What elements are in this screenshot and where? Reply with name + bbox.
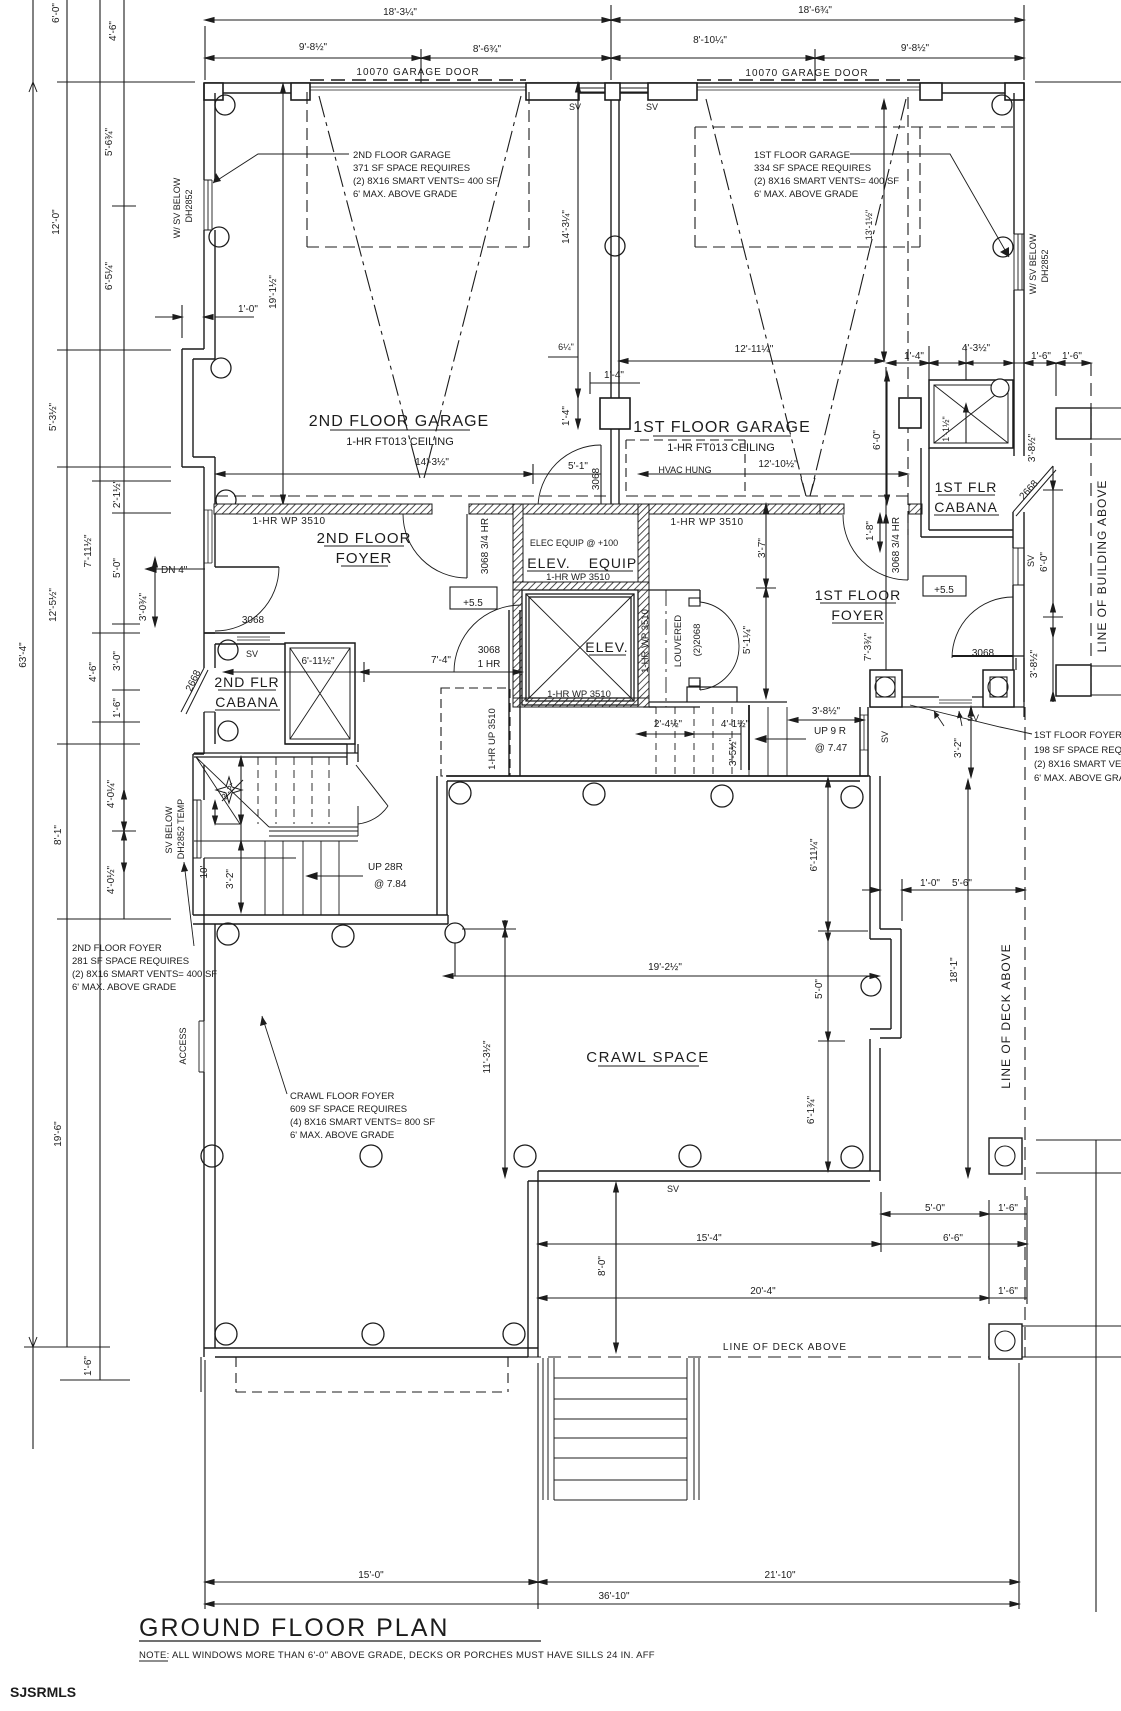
dim 19'-1 1/2 left garage [282, 84, 284, 504]
garage door dashed lines 10070 [310, 79, 920, 81]
stair room bottom wall [193, 915, 448, 924]
lower flight treads [265, 841, 339, 915]
svg-text:(2)2068: (2)2068 [692, 624, 703, 657]
svg-text:2ND FLOOR GARAGE: 2ND FLOOR GARAGE [309, 413, 489, 430]
svg-text:5'-0": 5'-0" [814, 979, 825, 999]
chain tick top wall y=82 [57, 81, 195, 83]
crawl foyer east wall [528, 1171, 538, 1357]
dim 1'-4 pillar horiz [590, 382, 640, 384]
svg-text:LINE OF DECK ABOVE: LINE OF DECK ABOVE [723, 1342, 847, 1353]
svg-text:W/ SV BELOW: W/ SV BELOW [1028, 233, 1038, 294]
center pillar walls [611, 100, 619, 504]
chain tick y=481 inner [92, 480, 171, 482]
2nd flr cabana west + top wall [204, 633, 215, 754]
2nd floor foyer door opening + leaf + arc [215, 566, 279, 568]
svg-text:W/ SV BELOW: W/ SV BELOW [172, 177, 182, 238]
dim 5'-0 right [827, 931, 829, 1041]
sv arrows bottom foyer wall [934, 711, 962, 726]
svg-text:3'-2": 3'-2" [219, 781, 237, 801]
dim line x=241 foyer 4'-0 segments [123, 790, 125, 872]
svg-text:5'-6": 5'-6" [952, 878, 972, 889]
svg-text:12'-10½": 12'-10½" [758, 459, 798, 470]
svg-text:21'-10": 21'-10" [764, 1570, 795, 1581]
garage lower dashed ceiling line [216, 495, 908, 497]
dim 7'-4 line [360, 671, 522, 673]
UP9R dims [637, 733, 694, 735]
2nd cabana east wall below X-box [285, 744, 355, 753]
svg-text:UP 9 R: UP 9 R [814, 726, 846, 737]
svg-text:1-HR WP 3510: 1-HR WP 3510 [547, 689, 611, 700]
svg-text:4'-1½": 4'-1½" [721, 719, 750, 730]
svg-text:1'-1½": 1'-1½" [941, 416, 951, 441]
svg-text:1ST FLOOR FOYER: 1ST FLOOR FOYER [1034, 730, 1121, 741]
svg-text:1 HR: 1 HR [478, 659, 501, 670]
svg-text:SV BELOW: SV BELOW [164, 806, 174, 854]
dim 12'-11 1/4 line [619, 360, 884, 362]
svg-text:1'-6": 1'-6" [1062, 351, 1082, 362]
dim 6'-11 1/4 right [827, 778, 829, 931]
dim 11'-3 1/2 [504, 920, 506, 1177]
garage door opening thresholds [310, 87, 920, 90]
dim 6'-0 right garage [886, 372, 888, 504]
svg-text:1'-4": 1'-4" [561, 406, 572, 426]
svg-text:63'-4": 63'-4" [18, 642, 29, 668]
svg-text:5'-1¼": 5'-1¼" [741, 625, 753, 654]
1-HR hatched wall band y504-514 [214, 504, 922, 707]
svg-text:SV: SV [646, 102, 658, 112]
right wall window DH2852 [1014, 234, 1024, 290]
louvered closet [649, 590, 700, 707]
foyer left wall window [204, 510, 212, 563]
svg-text:2ND FLOOR FOYER: 2ND FLOOR FOYER [72, 943, 162, 954]
1st cabana pier block [899, 398, 921, 428]
svg-text:1'-0": 1'-0" [920, 878, 940, 889]
mid landing line [194, 840, 358, 842]
svg-text:LOUVERED: LOUVERED [673, 615, 684, 667]
line of building above dashed x=1091 [1090, 363, 1092, 700]
wall below elevator from x509/520 [509, 610, 520, 776]
UP9R bottom wall y=776/781 continues under core [446, 775, 868, 777]
DN 4 arrow [146, 568, 205, 570]
svg-text:1-HR FT013 CEILING: 1-HR FT013 CEILING [346, 436, 454, 448]
svg-text:SV: SV [569, 102, 581, 112]
svg-text:3068: 3068 [242, 615, 265, 626]
bottom exterior stairs [543, 1358, 699, 1500]
svg-text:HVAC HUNG: HVAC HUNG [658, 465, 711, 475]
8'-0 dim arrow to deck line [615, 1183, 617, 1352]
svg-text:1ST FLOOR GARAGE: 1ST FLOOR GARAGE [754, 150, 850, 161]
elev equip east wall [638, 504, 649, 590]
cabana 2668 door top-right [1013, 466, 1056, 516]
dim 18'-1 deck [967, 780, 969, 1177]
svg-text:EQUIP: EQUIP [589, 555, 638, 571]
ACCESS hatch window [199, 1021, 204, 1072]
svg-text:1-HR WP 3510: 1-HR WP 3510 [670, 517, 743, 528]
svg-text:1'-6": 1'-6" [112, 698, 123, 718]
svg-text:12'-5½": 12'-5½" [48, 588, 59, 622]
svg-text:ELEC EQUIP @ +100: ELEC EQUIP @ +100 [530, 538, 618, 548]
chain tick y=513 (2'-1 1/2) [112, 512, 171, 514]
crawl west wall upper [437, 776, 447, 915]
upper flight dashed treads [258, 757, 329, 824]
svg-text:8'-0": 8'-0" [597, 1256, 608, 1276]
UP9R top wall [643, 702, 787, 707]
svg-text:2668: 2668 [1018, 478, 1041, 502]
svg-text:7'-11½": 7'-11½" [83, 534, 94, 568]
svg-text:(2) 8X16 SMART VENTS= 400 SF: (2) 8X16 SMART VENTS= 400 SF [72, 969, 217, 980]
stair inner dims [240, 757, 242, 912]
svg-text:5'-6¾": 5'-6¾" [104, 127, 115, 156]
svg-text:6' MAX. ABOVE GRADE: 6' MAX. ABOVE GRADE [353, 189, 457, 200]
svg-text:3'-0": 3'-0" [112, 651, 123, 671]
dim 1'-8 at right foyer door [879, 514, 881, 551]
svg-text:1-HR WP 3510: 1-HR WP 3510 [546, 572, 610, 583]
svg-text:4'-0½": 4'-0½" [106, 865, 117, 894]
svg-text:2ND FLOOR GARAGE: 2ND FLOOR GARAGE [353, 150, 451, 161]
svg-text:3068 3/4 HR: 3068 3/4 HR [891, 517, 902, 573]
+5.5 box left [450, 587, 497, 609]
svg-text:1-HR WP 3510: 1-HR WP 3510 [640, 609, 651, 673]
cabana 2668 door diagonal [181, 668, 215, 714]
svg-text:18'-3¼": 18'-3¼" [383, 6, 417, 18]
svg-text:1-HR UP 3510: 1-HR UP 3510 [487, 708, 498, 770]
svg-text:6'-6": 6'-6" [943, 1233, 963, 1244]
svg-text:1'-4": 1'-4" [604, 370, 624, 381]
svg-text:5'-0": 5'-0" [112, 558, 123, 578]
svg-text:20'-4": 20'-4" [750, 1286, 776, 1297]
pillar block mid [600, 398, 630, 429]
chain tick y=1347 (19'-6 bottom) [24, 1346, 110, 1348]
left dim chain mid x=100 [99, 0, 101, 1380]
svg-text:6'-0": 6'-0" [1039, 552, 1050, 572]
dim row y=363 top right [887, 362, 1091, 364]
elevator shaft west wall [513, 590, 522, 707]
svg-text:36'-10": 36'-10" [598, 1591, 629, 1602]
svg-text:4'-6": 4'-6" [108, 21, 119, 41]
crawl foyer west wall [204, 915, 215, 1348]
chain tick y=624 (5'-0) [112, 623, 140, 625]
crawl space top wall [447, 776, 870, 781]
title underlines [139, 430, 999, 1661]
dashed building line x=908 lower [907, 97, 909, 180]
long dim x=886 foyer 7'-3 3/4 [885, 367, 887, 702]
svg-text:5'-1": 5'-1" [568, 461, 588, 472]
svg-text:+5.5: +5.5 [463, 598, 483, 609]
svg-text:7'-3¾": 7'-3¾" [863, 632, 874, 661]
2nd flr cabana X-box shaft [285, 643, 355, 744]
svg-text:DH2852 TEMP: DH2852 TEMP [176, 799, 186, 859]
pilings circles left wall [209, 95, 1013, 510]
+5.5 box right [923, 576, 966, 596]
deck rim top-right square [1056, 408, 1091, 439]
svg-text:DH2852: DH2852 [1040, 249, 1050, 282]
svg-text:6'-0": 6'-0" [872, 430, 883, 450]
stair east wall + door [347, 744, 358, 765]
svg-text:NOTE: ALL WINDOWS MORE THAN 6': NOTE: ALL WINDOWS MORE THAN 6'-0" ABOVE … [139, 1650, 655, 1661]
svg-text:3'-8½": 3'-8½" [1027, 433, 1038, 462]
left garage dashed ceiling rect [307, 92, 529, 247]
1st cabana bottom wall [921, 530, 1013, 537]
chain tick y=206 (5'-6 3/4) [112, 205, 136, 207]
UP 28R arrow [307, 875, 363, 877]
chain tick y=722 (1'-6 / 4'-6) [92, 721, 140, 723]
dim 1'-0 5'-6 upper right [862, 889, 880, 891]
svg-text:GROUND FLOOR PLAN: GROUND FLOOR PLAN [139, 1614, 449, 1642]
svg-text:2ND FLR: 2ND FLR [214, 674, 279, 690]
svg-text:(2) 8X16 SMART VENTS= 400 SF: (2) 8X16 SMART VENTS= 400 SF [754, 176, 899, 187]
piling circles crawl row y=1156 [201, 1145, 863, 1168]
svg-text:15'-0": 15'-0" [358, 1570, 384, 1581]
svg-text:2ND FLOOR: 2ND FLOOR [317, 530, 412, 547]
svg-text:1-HR FT013 CEILING: 1-HR FT013 CEILING [667, 442, 775, 454]
chain tick y=744 (12'-5 1/2) [57, 743, 140, 745]
top dim row B line 9'-8, 8'-6, 8'-10, 9'-8 [205, 57, 1024, 59]
svg-text:11'-3½": 11'-3½" [482, 1040, 493, 1074]
svg-text:DN 4": DN 4" [161, 565, 188, 576]
dim line x=155 (3'-0 3/4) [154, 558, 156, 626]
svg-text:6' MAX. ABOVE GRADE: 6' MAX. ABOVE GRADE [1034, 773, 1121, 784]
svg-text:334 SF SPACE REQUIRES: 334 SF SPACE REQUIRES [754, 163, 871, 174]
svg-text:12'-11¼": 12'-11¼" [735, 343, 774, 355]
extension lines bottom dims [204, 1360, 206, 1609]
elev equip west wall [513, 504, 523, 582]
crawl space bottom wall [528, 1171, 880, 1181]
wall x=860/868 between 707 and 776 [860, 707, 868, 776]
svg-text:198 SF SPACE REQUIRES: 198 SF SPACE REQUIRES [1034, 745, 1121, 756]
svg-text:5'-3½": 5'-3½" [48, 402, 59, 431]
svg-text:7'-4": 7'-4" [431, 655, 451, 666]
svg-text:2668: 2668 [184, 668, 204, 693]
svg-text:19'-6": 19'-6" [53, 1121, 64, 1147]
svg-text:LINE OF DECK ABOVE: LINE OF DECK ABOVE [999, 943, 1013, 1088]
svg-text:15'-4": 15'-4" [696, 1233, 722, 1244]
dim 13'-1 1/2 vertical [883, 100, 885, 361]
elev equip bottom wall [513, 582, 649, 590]
svg-text:2'-1½": 2'-1½" [112, 479, 123, 508]
crawl foyer bottom wall [204, 1348, 538, 1357]
svg-text:3'-2": 3'-2" [225, 869, 236, 889]
right wall lower segment [1013, 512, 1024, 702]
svg-text:8'-10¼": 8'-10¼" [693, 34, 727, 46]
svg-text:1'-6": 1'-6" [83, 1356, 94, 1376]
piling squares in foyer bottom wall [870, 665, 1091, 707]
svg-text:9'-8½": 9'-8½" [901, 43, 930, 54]
dim 14'-3 1/4 pillar left [577, 83, 579, 398]
crawl circle leader [454, 943, 456, 976]
svg-text:UP 28R: UP 28R [368, 862, 403, 873]
piling circles mid row y=795 [449, 782, 863, 808]
svg-text:1-HR WP 3510: 1-HR WP 3510 [252, 516, 325, 527]
svg-text:14'-3½": 14'-3½" [415, 457, 449, 468]
dashed below-stair rect [441, 688, 510, 776]
bottom dim 36'-10 [205, 1603, 1019, 1605]
svg-text:4'-6": 4'-6" [88, 662, 99, 682]
svg-text:@ 7.84: @ 7.84 [374, 879, 407, 890]
left dim chain inner x=124 [123, 0, 125, 919]
svg-text:FOYER: FOYER [336, 550, 393, 567]
dim 8'-0 crawl bottom [615, 1183, 617, 1352]
svg-text:3068 3/4 HR: 3068 3/4 HR [480, 518, 491, 574]
svg-text:ELEV.: ELEV. [527, 555, 570, 571]
winder arrow star [216, 777, 243, 803]
svg-text:1ST FLOOR: 1ST FLOOR [815, 587, 902, 603]
stair window DH2852 TEMP [193, 800, 201, 858]
dims 3'-7 / 5'-1 1/4 right of closet [765, 504, 767, 588]
foyer lower wall right y=697/707 [870, 670, 1024, 707]
svg-text:3'-8½": 3'-8½" [812, 706, 841, 717]
left garage V dash-dot lines [319, 96, 521, 478]
top wall inner face segments [215, 92, 1014, 94]
deck bottom dashed line y=1357 [528, 1356, 989, 1358]
svg-text:6'-0": 6'-0" [51, 3, 62, 23]
chain tick y=919 (8'-1) [57, 918, 171, 920]
dim 3'-8 1/2 right [789, 719, 864, 721]
elevator shaft bottom wall [513, 698, 649, 707]
svg-text:3068: 3068 [972, 648, 995, 659]
door 3068 foyer bottom: leaf + arc [952, 655, 1013, 657]
chain tick y=1380 (1'-6) [60, 1379, 130, 1381]
top wall windows SV [579, 88, 648, 92]
svg-text:1'-6": 1'-6" [1031, 351, 1051, 362]
crawl bottom dim lines [881, 1213, 989, 1215]
svg-text:3'-0¾": 3'-0¾" [138, 592, 149, 621]
elevator shaft east wall [638, 590, 649, 707]
right garage dashed ceiling rect [695, 127, 1014, 247]
top dim row A line 18'-3 1/4 and 18'-6 3/4 [205, 19, 1024, 21]
dim 6'-1 3/4 right [827, 1041, 829, 1171]
svg-text:6' MAX. ABOVE GRADE: 6' MAX. ABOVE GRADE [72, 982, 176, 993]
landing lines [269, 806, 358, 836]
left wall jog bump 1'-0 [182, 349, 215, 467]
right garage dashed wall line x=908 [907, 97, 909, 535]
foyer door 3068 3/4HR (right) leaf+arc [907, 514, 909, 580]
piling circles bottom row y=1334 [215, 1323, 525, 1345]
dim 3'-2 right below foyer [970, 707, 972, 777]
svg-text:3068: 3068 [591, 467, 602, 490]
svg-text:609 SF SPACE REQUIRES: 609 SF SPACE REQUIRES [290, 1104, 407, 1115]
svg-text:10070 GARAGE DOOR: 10070 GARAGE DOOR [356, 67, 479, 78]
UP9R landing step rect [687, 687, 737, 702]
tick 6 1/4 [548, 356, 578, 358]
left wall foyer x=204/215 [204, 457, 215, 567]
line continuing right from top-right corner [1035, 81, 1121, 83]
left wall below door to cabana corner [204, 567, 215, 633]
svg-text:SV: SV [246, 649, 258, 659]
svg-text:SJSRMLS: SJSRMLS [10, 1684, 76, 1700]
svg-text:19'-1½": 19'-1½" [268, 275, 279, 309]
note leaders [181, 154, 1032, 1094]
svg-text:@ 7.47: @ 7.47 [815, 743, 848, 754]
svg-text:1'-0": 1'-0" [238, 304, 258, 315]
svg-text:1'-6": 1'-6" [998, 1203, 1018, 1214]
SECTION:LEFTDIMS [181, 80, 1056, 1357]
bottom dim 15'-0 / 21'-10 [205, 1581, 1019, 1583]
svg-text:1'-4": 1'-4" [904, 351, 924, 362]
svg-text:6'-11¼": 6'-11¼" [808, 838, 820, 872]
left wall 1'-0 jog dim [155, 316, 182, 318]
door 3068 step at right [1013, 656, 1024, 717]
svg-text:12'-0": 12'-0" [51, 209, 62, 235]
svg-text:(2) 8X16 SMART VENTS= 400 SF: (2) 8X16 SMART VENTS= 400 SF [353, 176, 498, 187]
hvac dashed rect right garage [626, 440, 745, 496]
deck right rim vertical [1095, 1140, 1097, 1612]
svg-text:SV: SV [880, 731, 890, 743]
svg-text:8'-1": 8'-1" [53, 825, 64, 845]
svg-text:9'-8½": 9'-8½" [299, 42, 328, 53]
svg-text:371 SF SPACE REQUIRES: 371 SF SPACE REQUIRES [353, 163, 470, 174]
sheet border line left [32, 0, 34, 1449]
svg-text:(4) 8X16 SMART VENTS= 800 SF: (4) 8X16 SMART VENTS= 800 SF [290, 1117, 435, 1128]
2nd cabana top wall [204, 633, 285, 644]
chain tick y=831 (4'-0 1/4) [112, 830, 136, 832]
left dim chain outer x=67 [66, 0, 68, 1347]
svg-text:ACCESS: ACCESS [178, 1027, 188, 1064]
svg-text:4'-0¼": 4'-0¼" [105, 779, 117, 808]
dim 7'-4 foyer leader ticks at x=364 [363, 662, 365, 682]
deck rim lines to right edge [1022, 1140, 1121, 1357]
svg-text:5'-0": 5'-0" [925, 1203, 945, 1214]
svg-text:3'-8½": 3'-8½" [1029, 649, 1040, 678]
svg-text:4'-3½": 4'-3½" [962, 343, 991, 354]
svg-text:6' MAX. ABOVE GRADE: 6' MAX. ABOVE GRADE [290, 1130, 394, 1141]
1st cabana west wall [921, 448, 929, 537]
chain tick y=350 (12'-0) [57, 349, 171, 351]
svg-text:(2) 8X16 SMART VENTS: (2) 8X16 SMART VENTS [1034, 759, 1121, 770]
svg-text:1'-6": 1'-6" [998, 1286, 1018, 1297]
top wall outer face [204, 82, 1024, 84]
chain tick y=467 (5'-3 1/2) [57, 466, 171, 468]
svg-text:6'-11½": 6'-11½" [301, 656, 335, 667]
svg-text:1'-8": 1'-8" [865, 521, 876, 541]
svg-text:13'-1½": 13'-1½" [864, 210, 874, 240]
SV window x=864 [860, 715, 868, 750]
svg-text:2'-4½": 2'-4½" [654, 719, 683, 730]
svg-text:3'-5½": 3'-5½" [728, 737, 739, 766]
svg-text:6'-5¼": 6'-5¼" [103, 261, 115, 290]
chain tick y=633 [92, 632, 140, 634]
crawl space east wall with notch [870, 776, 901, 1181]
winder diagonals [196, 757, 269, 827]
svg-text:14'-3¼": 14'-3¼" [560, 210, 572, 244]
UP9R stair treads [656, 707, 732, 776]
1st flr cabana X-box [929, 380, 1013, 448]
stair room west wall [193, 754, 204, 915]
dim 6'-11 1/2 cabana [224, 671, 436, 673]
svg-text:8'-6¾": 8'-6¾" [473, 44, 502, 55]
svg-text:10070 GARAGE DOOR: 10070 GARAGE DOOR [745, 68, 868, 79]
extension lines top [204, 26, 206, 80]
2nd cabana window [237, 633, 270, 640]
dim line y=474 : 14'-3 1/2 left, 5'-1, 12'-10 1/2 right [216, 473, 533, 475]
svg-text:DH2852: DH2852 [184, 189, 194, 222]
svg-text:6¼": 6¼" [558, 342, 574, 352]
deck rim mid band right of building [1091, 666, 1121, 695]
svg-text:281 SF SPACE REQUIRES: 281 SF SPACE REQUIRES [72, 956, 189, 967]
svg-text:CRAWL FLOOR FOYER: CRAWL FLOOR FOYER [290, 1091, 394, 1102]
UP 9R arrow [756, 738, 806, 740]
left wall upper x=204/215 [204, 83, 215, 359]
svg-text:6'-1¾": 6'-1¾" [806, 1095, 817, 1124]
window DH2852 left [204, 180, 212, 230]
svg-text:3'-2": 3'-2" [953, 738, 964, 758]
right wall SV window [1013, 548, 1024, 585]
svg-text:CABANA: CABANA [215, 694, 279, 710]
svg-text:3'-7": 3'-7" [757, 538, 768, 558]
porch dashed rect below crawl foyer [236, 1357, 508, 1392]
svg-text:SV: SV [1026, 555, 1036, 567]
svg-text:FOYER: FOYER [831, 607, 884, 623]
main stair room: top wall [194, 753, 358, 757]
